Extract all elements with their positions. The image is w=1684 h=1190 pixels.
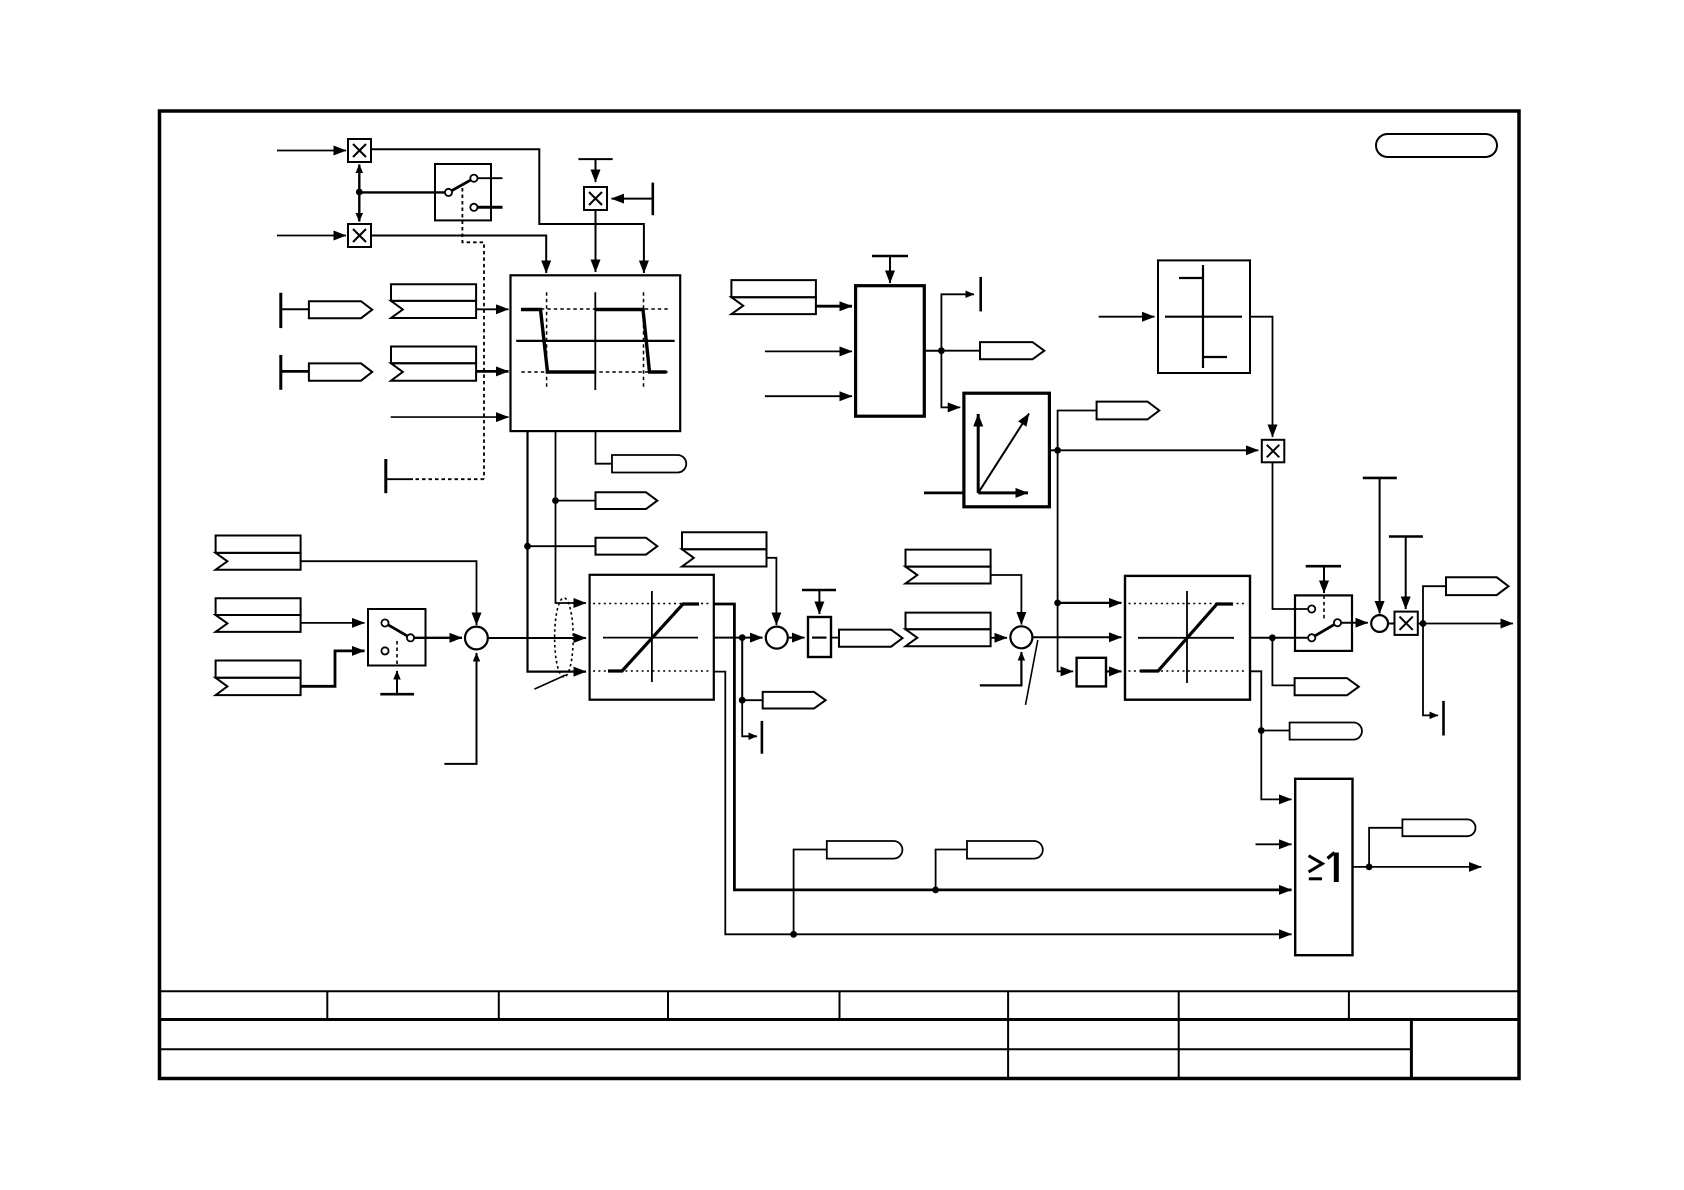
OR gate block [1295, 779, 1352, 955]
wire accel lower-left stub [924, 491, 964, 494]
limiter1 dotted lower limit [593, 670, 711, 672]
title block [160, 991, 1520, 1078]
accel vertical axis arrow [977, 414, 980, 493]
terminal bar lower right [1442, 701, 1445, 736]
node limiter1 output tee [739, 634, 746, 641]
summing circle 4 [1371, 615, 1388, 632]
switch S2 blade [389, 625, 408, 636]
parameter T-bar above tall block [872, 256, 908, 283]
small box droop [1077, 658, 1106, 687]
limiter2 vertical axis [1186, 591, 1188, 683]
switch S3 blade [1315, 625, 1334, 636]
wire X4 output to switch3 upper contact [1273, 462, 1308, 609]
wire tee to switch S1 [359, 191, 444, 193]
wire limiter1 output main [714, 637, 763, 639]
connector pill3 [1290, 723, 1362, 740]
connector pentagon after accel [1097, 402, 1160, 420]
node tee pill2 [932, 887, 939, 894]
wire tee up to pill4 [1369, 828, 1402, 867]
parameter T-bar above X3 [578, 159, 612, 182]
terminal bar for S1 control [384, 459, 387, 493]
signal banner setpoint1 [216, 536, 301, 570]
parameter T-bar right of X3 [612, 183, 653, 216]
wire double arrow between X1 and X2 [358, 165, 360, 222]
wire input to X1 [277, 150, 346, 152]
ramp graph solid vertical axis [594, 292, 596, 390]
connector pill2 [967, 841, 1043, 859]
summing circle 2 [766, 627, 788, 649]
wire summing circle 1 to limiter [488, 637, 586, 639]
limiter block 1 [590, 575, 714, 700]
drawing frame [160, 111, 1520, 1079]
connector pentagon input row2 [309, 363, 372, 380]
dashed ellipse group marker [555, 598, 574, 677]
parameter T-bar above X5 [1389, 537, 1423, 610]
OR gate label greater-equal-1 [1309, 853, 1337, 883]
wire circle4 to X5 [1388, 623, 1395, 625]
terminal T-bar input row1 [281, 293, 309, 328]
wire limiter2 lower output down to OR input1 [1250, 671, 1292, 799]
switch S3 dashed control inside [1323, 595, 1325, 620]
wire S1 lower throw stub [478, 206, 503, 209]
connector pill4 [1402, 819, 1475, 836]
wire bottom input to circle3 [980, 652, 1022, 685]
connector pentagon final output [1446, 577, 1509, 595]
wire banner to tall block [816, 305, 852, 308]
signal banner row1 [391, 284, 476, 318]
wire banner setpoint3 to switch S2 lower [301, 651, 365, 686]
signal banner before tall block [731, 280, 816, 314]
wire dashed S1 control path [462, 188, 484, 479]
switch S1 blade [452, 180, 470, 190]
limiter1 dotted upper limit [593, 603, 711, 605]
wire banner to circle2 top [767, 558, 777, 625]
limiter2 dotted upper limit [1129, 603, 1247, 605]
wire tee up to pill2 [936, 850, 967, 890]
ramp graph waveform [521, 310, 595, 373]
wire ramp bottom output 2 down [556, 431, 587, 603]
wire S2 output to summing circle 1 [415, 637, 463, 639]
hysteresis inner upper step [1179, 277, 1203, 279]
signal banner before circle3 upper [906, 550, 991, 584]
wire accel output [1049, 449, 1057, 451]
node tee pill3 [1258, 727, 1265, 734]
wire tee down to accel block [941, 351, 960, 408]
connector pentagon ramp status1 [596, 492, 658, 509]
node accel output tee [1054, 447, 1061, 454]
wire tee up to pentagon [1423, 586, 1446, 623]
node OR output tee [1366, 864, 1373, 871]
connector pentagon after limiter2 [1295, 678, 1359, 695]
node tee pentagon r2170 [739, 697, 746, 704]
accel horizontal axis arrow [978, 491, 1028, 494]
wire S1 upper throw stub [478, 177, 503, 179]
wire tee up to pentagon [1058, 411, 1097, 451]
function diagram number pill top right [1376, 134, 1497, 157]
wire tee down to pentagon [1272, 638, 1294, 686]
limiter2 characteristic [1140, 604, 1233, 671]
signal banner setpoint2 [216, 598, 301, 632]
wire hysteresis output to X4 [1250, 317, 1273, 437]
acceleration block [964, 393, 1050, 507]
wire X5 output main [1418, 623, 1513, 625]
tall block speed limiter [856, 286, 925, 417]
parameter T-bar above minus box [802, 590, 836, 614]
hysteresis inner vertical [1202, 265, 1204, 368]
summing circle 3 [1010, 626, 1032, 648]
wire OR output [1353, 866, 1482, 868]
wire tee to pentagon [556, 500, 596, 502]
wire circle2 to minus box [788, 637, 805, 639]
signal banner row2 [391, 347, 476, 381]
connector pill ramp output [612, 455, 686, 473]
wire banner row1 to ramp input1 [476, 308, 508, 310]
limiter2 horizontal axis [1138, 637, 1234, 639]
wire banner row2 to ramp input2 [476, 370, 508, 373]
node tall block output tee [938, 347, 945, 354]
slash marker circle3 [1026, 640, 1038, 705]
ramp graph dashed vertical right [643, 292, 645, 389]
wire ramp bottom output to pill [596, 431, 613, 464]
connector pentagon after tall block [980, 342, 1044, 359]
wire ramp input3 [391, 416, 509, 418]
limiter1 horizontal axis [603, 637, 698, 639]
connector pentagon after limiter1 [763, 692, 826, 709]
switch S1 box [435, 164, 491, 220]
wire OR input2 stub [1256, 843, 1292, 845]
node tee to pentagon at 546 [524, 543, 531, 550]
connector pentagon after minus [839, 630, 903, 647]
wire tee to pentagon 2 [528, 545, 596, 547]
signal banner before circle3 lower [906, 613, 991, 647]
node limiter2 output tee [1269, 634, 1276, 641]
ramp graph time axis [516, 340, 674, 342]
wire tee to pill3 [1261, 730, 1289, 732]
ramp function generator block U1 [511, 275, 681, 431]
summing circle 1 [465, 627, 488, 650]
slash marker limiter1 [534, 675, 566, 689]
limiter block 2 [1125, 576, 1250, 700]
wire banner to circle3 left [991, 637, 1007, 639]
wire X1 output to ramp top input right [371, 149, 644, 273]
connector pill1 [827, 841, 903, 859]
multiplier X2 [348, 224, 371, 247]
wire input to hysteresis [1099, 316, 1155, 318]
accel diagonal arrow [978, 414, 1029, 493]
wire tee down to limiter2 inputs [1058, 450, 1074, 671]
terminal bar upper right of tall block [979, 277, 982, 312]
wire tall block input lower [765, 395, 852, 397]
inverter box with minus [808, 617, 831, 657]
wire tee to pentagon [742, 699, 763, 701]
wire limiter1 tee down to pentagon and terminal [741, 638, 743, 701]
hysteresis inner mid horizontal [1165, 316, 1242, 318]
wire tall block input middle [765, 350, 852, 352]
switch S3 box [1295, 595, 1352, 651]
terminal bar below pentagon [761, 721, 764, 754]
hysteresis block [1158, 260, 1250, 373]
signal banner above circle2 [682, 532, 767, 566]
wire limiter1 lower output to OR input4 [714, 672, 1292, 935]
signal banner setpoint3 [216, 661, 301, 696]
node X5 output tee [1420, 620, 1427, 627]
wire input to X2 [277, 235, 346, 237]
limiter2 dotted lower limit [1129, 670, 1247, 672]
wire bottom input to summing circle 1 [444, 653, 476, 764]
wire S3 output to circle4 [1342, 622, 1368, 624]
wire small box to limiter2 input3 [1106, 670, 1122, 672]
multiplier X5 [1395, 612, 1418, 635]
wire banner setpoint1 to summing circle top [301, 561, 477, 625]
wire circle3 to limiter2 [1032, 636, 1121, 638]
multiplier X4 [1262, 440, 1285, 463]
wire limiter1 upper output to OR input3 [714, 604, 1292, 890]
wire ramp bottom output 3 down [528, 431, 587, 671]
limiter1 vertical axis [651, 591, 653, 682]
node tee pill1 [790, 931, 797, 938]
wire banner setpoint2 to switch S2 [301, 622, 365, 624]
parameter T-bar above circle4 [1363, 478, 1397, 614]
wire tee to limiter2 input1 [1058, 602, 1122, 604]
switch S1 contacts [445, 175, 478, 211]
wire X2 output to ramp top input left [371, 236, 546, 274]
wire tee right to multiplier X4 [1058, 449, 1259, 451]
wire tee up to pill1 [794, 850, 827, 935]
connector pentagon ramp status2 [596, 538, 658, 555]
switch S3 contacts [1308, 605, 1341, 641]
wire dashed control to terminal bar [413, 478, 484, 480]
wire tee up to terminal [941, 294, 974, 350]
node tee limiter2 input1 [1054, 600, 1061, 607]
switch S2 contacts [381, 619, 414, 654]
node tee to pentagon at 500 [552, 497, 559, 504]
multiplier X1 [348, 139, 371, 162]
ramp graph dashed horizontal top [521, 308, 670, 310]
multiplier X3 [584, 187, 607, 210]
switch S2 box [368, 609, 426, 666]
wire tall block output [924, 350, 941, 352]
wire minus box to pentagon [831, 637, 839, 639]
limiter1 characteristic [608, 604, 699, 671]
parameter T-bar above S3 [1306, 566, 1341, 593]
wire X3 output to ramp top input middle [595, 210, 597, 272]
switch S2 control arrow and T-bar [380, 641, 414, 694]
terminal T-bar input row2 [281, 355, 309, 390]
wire tee down to terminal [1423, 624, 1438, 716]
wire limiter2 output main [1250, 637, 1307, 639]
connector pentagon input row1 [309, 301, 372, 318]
hysteresis inner lower step [1203, 356, 1227, 358]
ramp graph dashed vertical left [546, 292, 548, 389]
node X1X2 tee [356, 189, 363, 196]
ramp graph dashed horizontal bottom [521, 371, 670, 373]
wire tee to pentagon [941, 350, 980, 352]
wire banner to circle3 top [991, 575, 1022, 625]
